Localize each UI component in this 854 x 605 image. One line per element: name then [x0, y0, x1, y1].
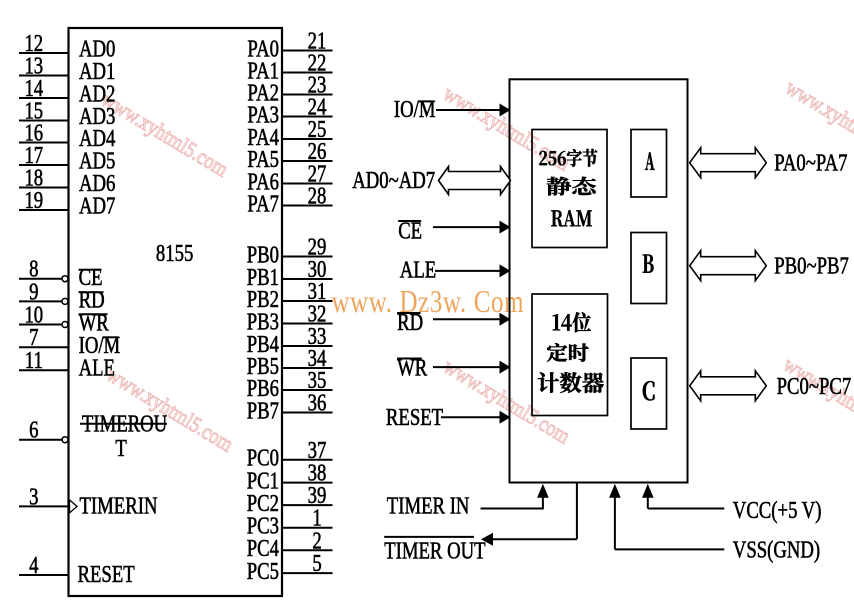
svg-text:AD7: AD7: [79, 192, 116, 219]
pin 12-19 labels AD0-AD7: [79, 35, 116, 219]
input RESET wire+arrow: [441, 411, 511, 424]
svg-text:ALE: ALE: [400, 256, 436, 283]
block 8155 internal diagram body: [510, 79, 688, 482]
pin 27 wire+number+label PA6: [247, 160, 332, 195]
svg-text:VCC(+5 V): VCC(+5 V): [733, 497, 822, 524]
svg-text:T: T: [115, 435, 126, 462]
bus PB0~PB7 double arrow: [690, 251, 767, 281]
pin 26 wire+number+label PA5: [247, 138, 332, 173]
timer box label 14位: [553, 312, 591, 332]
input CE wire+arrow: [433, 221, 511, 234]
pin 21 wire+number+label PA0: [247, 27, 332, 62]
TIMER IN wire+arrow: [481, 484, 549, 510]
pin 11 wire+number (ALE): [19, 347, 69, 374]
pin 2 wire+number+label PC4: [247, 527, 333, 562]
pin 25 wire+number+label PA4: [247, 116, 332, 151]
input ALE label: [400, 256, 436, 283]
pin 4 wire+number (RESET): [19, 552, 69, 579]
svg-text:TIMERIN: TIMERIN: [80, 492, 158, 519]
port B label: [643, 255, 654, 273]
svg-text:11: 11: [25, 347, 43, 374]
pin 15 wire+number (AD3): [19, 97, 69, 124]
chip U1 label 8155: [156, 240, 193, 267]
pin 30 wire+number+label PB1: [247, 256, 333, 291]
watermark www.xyhtml5.com diagonal x6: [97, 76, 854, 457]
pin 6 label TIMEROUT strikethrough: [80, 410, 168, 461]
VCC wire+arrow: [642, 484, 724, 509]
svg-text:www.xyhtml5.com: www.xyhtml5.com: [97, 88, 232, 182]
VCC label: [733, 497, 822, 524]
svg-text:4: 4: [29, 552, 39, 579]
svg-text:PB0~PB7: PB0~PB7: [774, 252, 849, 279]
bus PA0~PA7 label: [774, 149, 847, 176]
input RESET label: [386, 404, 443, 431]
input WR label with overline: [397, 354, 428, 381]
port A label: [645, 152, 655, 169]
pin 5 wire+number+label PC5: [247, 550, 333, 585]
svg-text:RESET: RESET: [78, 561, 135, 588]
pin 9 label RD with overline: [79, 286, 105, 313]
svg-text:8155: 8155: [156, 240, 193, 267]
pin 6 wire+number (TIMEROUT): [19, 417, 68, 444]
pin 7 wire+number (IOM): [19, 324, 69, 351]
pin 19 wire+number (AD7): [19, 187, 69, 214]
pin 8 label CE with overline: [79, 264, 103, 291]
pin 14 wire+number (AD2): [19, 75, 69, 102]
pin 12 wire+number (AD0): [19, 30, 69, 57]
port C label: [643, 381, 655, 400]
svg-text:AD0~AD7: AD0~AD7: [352, 167, 435, 194]
watermark www.Dz3w.Com orange: [332, 284, 525, 320]
svg-text:VSS(GND): VSS(GND): [733, 536, 820, 563]
pin 22 wire+number+label PA1: [247, 49, 332, 84]
pin 23 wire+number+label PA2: [247, 71, 332, 106]
VSS label: [733, 536, 820, 563]
input RD label with overline: [397, 309, 423, 336]
input IO/M wire+arrow: [436, 104, 511, 117]
pin 10 label WR with overline: [79, 309, 110, 336]
svg-text:19: 19: [24, 187, 43, 214]
pin 29 wire+number+label PB0: [247, 233, 333, 268]
svg-text:ALE: ALE: [79, 354, 115, 381]
pin 8 wire+number (CE): [19, 256, 68, 283]
pin 37 wire+number+label PC0: [247, 437, 333, 472]
pin 36 wire+number+label PB7: [247, 389, 333, 424]
bus PA0~PA7 double arrow: [690, 148, 767, 178]
RAM box label RAM: [551, 210, 592, 226]
chip U1 8155 body: [69, 28, 283, 596]
svg-text:IO/M: IO/M: [394, 96, 436, 123]
pin 18 wire+number (AD6): [19, 164, 69, 191]
bus PC0~PC7 label: [777, 373, 852, 400]
pin 4 label RESET: [78, 561, 135, 588]
pin 28 wire+number+label PA7: [247, 182, 332, 217]
pin 3 wire+number (TIMERIN): [19, 483, 77, 513]
timer box: [532, 294, 608, 416]
pin 32 wire+number+label PB3: [247, 300, 333, 335]
timer box label 计数器: [538, 372, 604, 393]
pin 7 label IO/M with overline on M: [79, 332, 121, 359]
svg-text:RESET: RESET: [386, 404, 443, 431]
pin 3 label TIMERIN: [80, 492, 158, 519]
svg-text:PB7: PB7: [247, 397, 279, 424]
TIMER OUT wire+arrow: [481, 483, 577, 546]
pin 33 wire+number+label PB4: [247, 323, 333, 358]
pin 38 wire+number+label PC1: [247, 459, 333, 494]
svg-text:6: 6: [29, 417, 39, 444]
pin 10 wire+number (WR): [19, 301, 68, 328]
pin 11 label ALE: [79, 354, 115, 381]
svg-text:36: 36: [308, 389, 327, 416]
svg-text:TIMER OUT: TIMER OUT: [384, 537, 485, 564]
svg-text:PA7: PA7: [247, 190, 279, 217]
pin 24 wire+number+label PA3: [247, 93, 332, 128]
pin 9 wire+number (RD): [19, 278, 68, 305]
pin 17 wire+number (AD5): [19, 142, 69, 169]
svg-text:PC5: PC5: [247, 558, 279, 585]
port C box: [631, 358, 667, 429]
svg-text:PA0~PA7: PA0~PA7: [774, 149, 847, 176]
TIMER OUT label with overline: [384, 537, 485, 564]
TIMER IN label: [387, 492, 470, 519]
svg-text:5: 5: [312, 550, 321, 577]
port A box: [631, 130, 667, 198]
input WR wire+arrow: [433, 361, 511, 374]
pin 16 wire+number (AD4): [19, 119, 69, 146]
RAM box label 256字节: [539, 149, 597, 167]
RAM box: [532, 130, 607, 248]
svg-text:PC0~PC7: PC0~PC7: [777, 373, 852, 400]
pin 34 wire+number+label PB5: [247, 345, 333, 380]
pin 1 wire+number+label PC3: [247, 505, 333, 540]
bus AD0~AD7 label: [352, 167, 435, 194]
VSS wire+arrow: [609, 484, 724, 550]
svg-text:www. Dz3w. Com: www. Dz3w. Com: [332, 284, 525, 320]
pin 31 wire+number+label PB2: [247, 278, 333, 313]
port B box: [631, 233, 667, 304]
input ALE wire+arrow: [435, 264, 511, 277]
svg-text:28: 28: [308, 182, 327, 209]
svg-text:TIMER IN: TIMER IN: [387, 492, 470, 519]
pin 39 wire+number+label PC2: [247, 482, 333, 517]
bus PB0~PB7 label: [774, 252, 849, 279]
pin 35 wire+number+label PB6: [247, 367, 333, 402]
input IO/M label with overline on M: [394, 96, 436, 123]
bus AD0~AD7 double arrow: [439, 167, 511, 195]
input RD wire+arrow: [433, 313, 511, 326]
bus PC0~PC7 double arrow: [690, 371, 767, 401]
svg-text:www.xyhtml5.com: www.xyhtml5.com: [779, 353, 854, 447]
input CE label with overline: [398, 217, 422, 244]
timer box label 定时: [547, 343, 589, 362]
svg-text:3: 3: [29, 483, 38, 510]
RAM box label 静态: [547, 177, 596, 196]
pin 13 wire+number (AD1): [19, 52, 69, 79]
